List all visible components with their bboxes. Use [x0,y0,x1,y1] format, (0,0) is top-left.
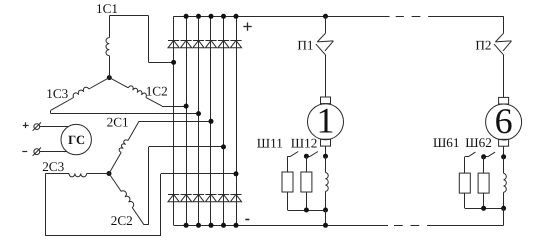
diode top row VD3 [193,40,204,42]
svg-text:2C3: 2C3 [42,159,64,174]
wire P1 to motor 1 [325,55,327,97]
junction dots on top bus [184,14,189,19]
node star point of winding 2 [107,171,112,176]
wire rectifier leg 5 [223,16,225,225]
terminal - of GS [22,151,27,153]
svg-text:П2: П2 [475,38,491,53]
winding 2C3 coil and wire to leg 6 [87,173,109,175]
winding 1C1 coil and wire to leg 1 [109,56,111,78]
diode bottom row VD8 [181,194,192,196]
switch P1 [317,33,325,42]
wire rectifier leg 3 [198,16,200,225]
node 2C3 to leg 6 [234,171,239,176]
wire - terminal to GS [40,151,67,153]
shunt contact row motor 1 [288,156,291,158]
winding 2C1 coil and wire to leg 4 [109,153,121,174]
diode top row VD6 [230,40,241,42]
wire P2 to motor 6 [503,55,505,98]
wire drops to resistors motor 1 [287,156,289,172]
svg-text:1C2: 1C2 [146,83,168,98]
generator GS circle [61,124,91,154]
diode bottom row VD7 [168,194,179,196]
node 2C2 to leg 5 [221,144,226,149]
svg-text:П1: П1 [297,37,313,52]
motor 1 armature circle [308,104,344,140]
winding 1C3 coil and wire to leg 3 [89,78,109,89]
wire bottom negative bus (solid left section) [174,225,388,227]
svg-text:ГС: ГС [68,133,85,147]
switch P2 [495,33,503,42]
diode bottom row VD11 [218,194,229,196]
svg-text:Ш12: Ш12 [291,136,318,151]
wire motor 6 to bottom bus [503,208,505,225]
wire bottom negative bus dashed break [394,225,403,227]
node motor 1 on bottom bus [323,223,328,228]
node motor6 field top [501,154,506,159]
node 1C1 to leg 1 [171,60,176,65]
label + polarity of top bus [243,26,251,28]
motor 6 armature circle [486,104,522,140]
join wire bottom motor 6 [464,193,466,208]
svg-text:6: 6 [495,101,513,141]
node shunt middle motor 1 [304,154,309,159]
svg-text:1: 1 [317,101,335,141]
wire top positive bus (solid left section) [174,16,390,18]
svg-text:1C1: 1C1 [96,1,118,16]
svg-text:2C2: 2C2 [111,213,133,228]
diode top row VD2 [181,40,192,42]
svg-text:Ш11: Ш11 [257,136,283,151]
wire motor 1 to bottom bus [325,210,327,225]
resistor R61 [459,173,470,193]
svg-text:Ш62: Ш62 [465,135,492,150]
wire rectifier leg 6 [236,16,238,225]
resistor R12 [301,172,312,192]
diode top row VD4 [205,40,216,42]
diode bottom row VD12 [230,194,241,196]
wire top positive bus (solid right section to P2) [428,16,504,18]
diode top row VD1 [168,40,179,42]
node 2C1 to leg 4 [209,119,214,124]
junction dots on bottom bus [184,223,189,228]
wire bus to switch P1 [325,16,327,33]
node 1C3 to leg 3 [196,111,201,116]
svg-text:Ш61: Ш61 [433,135,460,150]
shunt contact row motor 6 [465,156,468,158]
wire bottom negative bus (solid right section) [427,225,504,227]
wire top positive bus dashed break [396,16,404,18]
terminal + of GS [23,125,29,127]
wire rectifier leg 1 [173,16,175,225]
motor 6 brush top [499,97,509,104]
field coil motor 6 [504,173,507,192]
wire drops to resistors motor 6 [464,157,466,173]
diode top row VD5 [218,40,229,42]
label - polarity of bottom bus [245,219,249,221]
winding 2C2 coil and wire to leg 5 [109,174,121,192]
diode bottom row VD9 [193,194,204,196]
node shunt middle motor 6 [481,154,486,159]
motor 6 brush bottom [499,139,509,146]
diode bottom row VD10 [205,194,216,196]
node 1C2 to leg 2 [184,104,189,109]
winding 1C2 coil and wire to leg 2 [109,78,128,88]
wire motor 6 to field node [503,146,505,157]
wire motor 1 to field node [325,146,327,156]
wire + terminal to GS [40,126,69,128]
wire rectifier leg 4 [210,16,212,225]
node top bus to P1 [323,14,328,19]
resistor R11 [282,172,293,192]
svg-text:2C1: 2C1 [107,114,129,129]
svg-text:1C3: 1C3 [46,86,68,101]
wire rectifier leg 2 [186,16,188,225]
wire bus corner to switch P2 [503,16,505,33]
node star point of winding 1 [107,75,112,80]
join wire bottom motor 1 [287,192,289,210]
motor 1 brush bottom [321,139,331,146]
resistor R62 [478,173,489,193]
motor 1 brush top [321,97,331,104]
field coil motor 1 [326,173,329,192]
node motor1 field top [323,154,328,159]
